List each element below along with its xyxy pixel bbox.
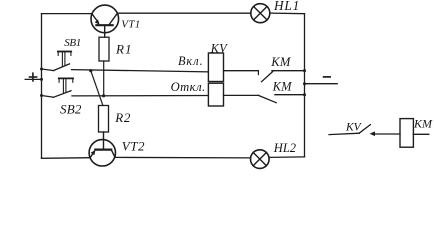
svg-text:SB2: SB2 [60,101,82,116]
svg-text:HL1: HL1 [273,0,300,13]
svg-text:VT1: VT1 [121,19,140,31]
svg-text:VT2: VT2 [122,139,145,154]
svg-text:КМ: КМ [270,55,292,69]
svg-text:Вкл.: Вкл. [178,54,204,68]
svg-text:R2: R2 [114,110,131,125]
svg-text:Откл.: Откл. [171,80,206,94]
svg-text:SB1: SB1 [64,37,81,49]
svg-text:KV: KV [210,41,228,55]
svg-text:KV: KV [345,121,363,133]
svg-text:R1: R1 [115,42,132,57]
svg-text:КМ: КМ [272,79,292,93]
svg-text:HL2: HL2 [273,141,296,155]
svg-text:КМ: КМ [413,117,433,131]
